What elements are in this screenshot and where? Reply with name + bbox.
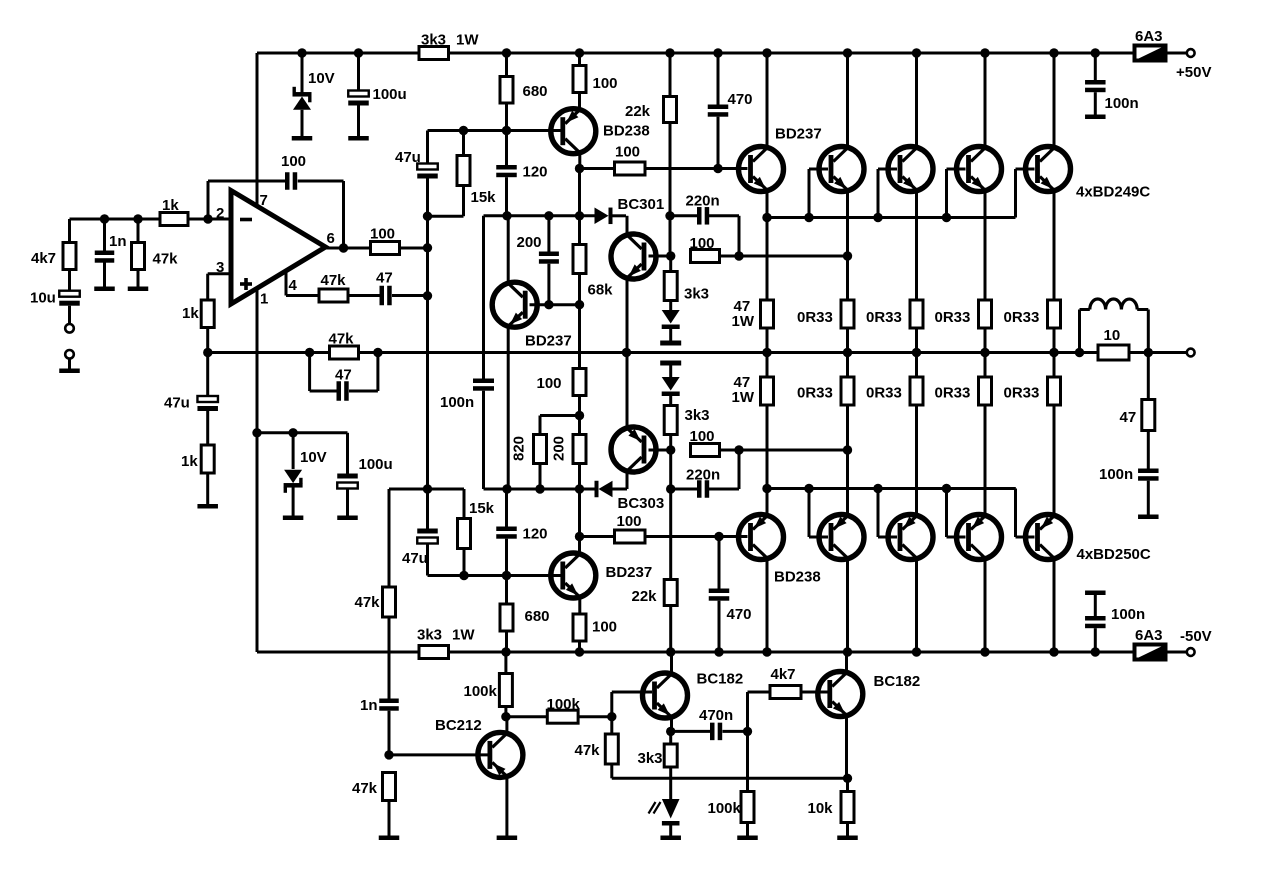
resistor 3k3 1W (bottom rail dropper) (419, 646, 449, 659)
capacitor bias coupling top lower plate (660, 361, 681, 366)
wire net-575 driver bias bottom (428, 574, 562, 577)
resistor 47k (feedback on output rail) (330, 346, 359, 359)
resistor 15k (top) (462, 131, 465, 156)
wire BC212 collector up (505, 717, 508, 733)
ground bottom 100u (337, 516, 358, 521)
ground 10k (837, 836, 858, 841)
wire base stub 5 (1014, 169, 1017, 218)
wire base stub 3 (877, 169, 880, 218)
wire emitter down 2 (846, 191, 849, 300)
svg-text:BD238: BD238 (603, 123, 650, 140)
wire 200' to net-537 (578, 489, 581, 537)
resistor 680 (top) (505, 53, 508, 77)
node bottom rail 470' (714, 647, 723, 656)
node top rail 100n (1091, 48, 1100, 57)
svg-text:3k3: 3k3 (417, 627, 442, 644)
wire collector to +rail 3 (915, 53, 918, 148)
capacitor 120 (top) (505, 131, 508, 166)
capacitor 47 (parallel feedback) (337, 381, 342, 401)
resistor 47 (Zobel) (1147, 353, 1150, 400)
svg-text:2: 2 (216, 205, 224, 222)
capacitor 1n (input filter) (103, 219, 106, 251)
transistor BD238 (bottom driver) (739, 515, 784, 560)
svg-text:47: 47 (376, 270, 393, 287)
ground BC212 emitter (497, 836, 518, 841)
node op-amp output junction (339, 243, 348, 252)
wire net-415 (540, 414, 580, 417)
wire input node (70, 218, 161, 221)
node VAS output net top (666, 251, 675, 260)
svg-text:47k: 47k (153, 251, 179, 268)
svg-text:120: 120 (523, 164, 548, 181)
wire 15k' top to 47u column (428, 488, 465, 491)
node BC301 emitter on rail (622, 348, 631, 357)
svg-text:1k: 1k (162, 197, 179, 214)
svg-text:0R33: 0R33 (935, 385, 971, 402)
resistor 4k7 (input) (63, 243, 76, 270)
node BC182-2 emitter 10k (843, 774, 852, 783)
transistor 4xBD249C output transistor 4 (top) (957, 147, 1002, 192)
svg-text:47u: 47u (164, 395, 190, 412)
wire op-amp pin 1 column (256, 288, 259, 652)
node top rail 100u (354, 48, 363, 57)
svg-text:1W: 1W (452, 627, 475, 644)
transistor BC301 (611, 234, 656, 279)
wire output resistor to 47u column (400, 247, 428, 250)
svg-text:0R33: 0R33 (866, 385, 902, 402)
wire 15k bottom to 47u column (428, 215, 464, 218)
capacitor 100n (top rail) (1094, 53, 1097, 80)
svg-text:BC301: BC301 (618, 196, 665, 213)
svg-text:47: 47 (1120, 409, 1137, 426)
node bottom rail collector 5 (1049, 647, 1058, 656)
wire collector to +rail 2 (846, 53, 849, 148)
capacitor 470 (bottom) (718, 537, 721, 589)
node base net bottom 3 (873, 484, 882, 493)
wire BD237-mid base (530, 303, 549, 306)
node 68k bottom (575, 300, 584, 309)
svg-text:BD238: BD238 (774, 569, 821, 586)
svg-text:22k: 22k (625, 103, 651, 120)
node base net 4 (942, 213, 951, 222)
resistor 10k (846, 778, 849, 791)
node driver emitter to base net (762, 213, 771, 222)
svg-text:0R33: 0R33 (797, 309, 833, 326)
node top rail zener (297, 48, 306, 57)
node BC182-1 base node (607, 712, 616, 721)
svg-text:47: 47 (335, 367, 352, 384)
node 220n to VAS net (734, 251, 743, 260)
node rail output column 3 (912, 348, 921, 357)
resistor 3k3 (top bias) (669, 256, 672, 272)
terminal input jack signal (65, 324, 74, 333)
resistor 4k7 (protection) (770, 686, 801, 699)
node input junction 47k (133, 214, 142, 223)
wire op-amp pin 3 input (208, 272, 231, 275)
zener diode 10V (top) (301, 53, 304, 94)
node 820 bottom (535, 484, 544, 493)
node net-450 to T2' emitter (843, 445, 852, 454)
wire collector to -rail 3 (915, 559, 918, 652)
ground 1n (94, 287, 115, 292)
node BC212 base (384, 750, 393, 759)
wire emitter up 5 (1053, 405, 1056, 515)
svg-text:470n: 470n (699, 707, 733, 724)
resistor 3k3 (protection) (669, 731, 672, 744)
svg-text:220n: 220n (686, 467, 720, 484)
capacitor 100n (Miller bridge) (473, 379, 494, 384)
node bottom rail collector 2 (843, 647, 852, 656)
transistor 4xBD250C output transistor 5 (bottom) (1026, 515, 1071, 560)
resistor 0R33 (top emitter 2) (841, 300, 854, 328)
wire BD237' emitter down (578, 598, 581, 615)
node bottom VAS net (666, 445, 675, 454)
wire 100n column top corner (482, 216, 485, 379)
node 68k top (575, 211, 584, 220)
svg-text:4xBD250C: 4xBD250C (1077, 546, 1151, 563)
resistor 100 (BD237' emitter) (573, 614, 586, 641)
node pin-2 junction (203, 214, 212, 223)
svg-text:4: 4 (289, 277, 298, 294)
wire 47u column bottom half (426, 353, 429, 529)
svg-text:BC212: BC212 (435, 717, 482, 734)
wire collector to +rail 4 (984, 53, 987, 148)
node top rail 22k (665, 48, 674, 57)
resistor 100k (BC212 to BC182 base) (506, 715, 547, 718)
wire net-130 driver bias top (428, 129, 562, 132)
svg-text:100: 100 (281, 153, 306, 170)
svg-text:47k: 47k (329, 331, 355, 348)
node pin-1 column to aux supply net (252, 428, 261, 437)
node 200 cap top (544, 211, 553, 220)
wire top +50V rail left section (op-amp supply) (257, 52, 419, 55)
wire BD238 collector down (578, 154, 581, 169)
node top rail collector 1 (762, 48, 771, 57)
ground protection diode (660, 836, 681, 841)
transistor BD237 (top driver) (739, 147, 784, 192)
svg-text:100: 100 (615, 144, 640, 161)
resistor 3k3 (bottom bias) (669, 396, 672, 406)
svg-text:68k: 68k (588, 282, 614, 299)
node BD238 collector net-169 (575, 164, 584, 173)
wire 1n column (388, 652, 391, 699)
wire top rail to fuse terminal (1166, 52, 1187, 55)
terminal output (1187, 349, 1195, 357)
node 47u column bottom diode-net (423, 484, 432, 493)
node top rail 100 (575, 48, 584, 57)
diode BC301 (bias diode) (595, 208, 609, 225)
svg-text:47k: 47k (575, 742, 601, 759)
svg-text:1k: 1k (182, 305, 199, 322)
node base net 3 (873, 213, 882, 222)
wire BC182-1 collector (670, 652, 673, 675)
node BC182-1 emitter node (666, 727, 675, 736)
svg-text:100: 100 (593, 75, 618, 92)
wire emitter down 3 (915, 191, 918, 300)
wire collector to -rail 5 (1053, 559, 1056, 652)
wire feedback capacitor branch (207, 181, 210, 219)
capacitor 100n (Zobel) (1147, 431, 1150, 469)
wire BD237-mid emitter crossing rail (507, 327, 510, 490)
node net-256 to T2 emitter (843, 251, 852, 260)
svg-text:47k: 47k (321, 272, 347, 289)
wire op-amp pin 7 supply (256, 53, 259, 207)
capacitor 470 (top) (717, 53, 720, 105)
svg-text:22k: 22k (632, 588, 658, 605)
wire BC303 emitter to rail (626, 353, 629, 428)
capacitor 200 (upper) (547, 216, 550, 252)
resistor 47k (BC212 base to ground) (383, 773, 396, 801)
svg-text:680: 680 (523, 83, 548, 100)
resistor 820 (539, 416, 542, 435)
capacitor 100 (op-amp feedback) (285, 172, 290, 190)
node top rail collector 5 (1049, 48, 1058, 57)
resistor 0R33 (top emitter 4) (979, 300, 992, 328)
ground bottom zener (283, 516, 304, 521)
svg-text:10k: 10k (808, 800, 834, 817)
wire BC182-2 emitter (845, 715, 848, 778)
svg-text:1k: 1k (181, 453, 198, 470)
node 200 cap bottom (544, 300, 553, 309)
wire T2 bottom emitter net (846, 450, 849, 515)
node bottom rail 100 (575, 647, 584, 656)
capacitor 47 (pin 4) (380, 286, 385, 306)
svg-text:220n: 220n (686, 193, 720, 210)
transistor 4xBD249C output transistor 3 (top) (888, 147, 933, 192)
resistor 1k (feedback to ground) (201, 445, 214, 473)
svg-text:47k: 47k (355, 594, 381, 611)
wire BD237-mid collector (507, 216, 510, 283)
resistor 100 (BD238 emitter) (578, 53, 581, 66)
svg-text:100k: 100k (464, 683, 498, 700)
svg-text:100n: 100n (440, 394, 474, 411)
resistor 0R33 (bottom emitter 4) (979, 377, 992, 405)
wire bottom -50V rail left section (257, 651, 419, 654)
svg-text:1n: 1n (109, 233, 127, 250)
node 220n' net left (666, 484, 675, 493)
node bottom driver emitter to base net (762, 484, 771, 493)
node rail output column 4 (980, 348, 989, 357)
node 15k top on net-130 (459, 126, 468, 135)
svg-text:100: 100 (690, 428, 715, 445)
svg-text:10V: 10V (308, 70, 335, 87)
node net-415 junction (575, 411, 584, 420)
svg-text:100u: 100u (359, 456, 393, 473)
op-amp U1 (231, 191, 326, 305)
resistor 200 (bottom) (578, 416, 581, 435)
wire emitter up 2 (846, 405, 849, 515)
resistor 10 (parallel with inductor) (1098, 345, 1129, 360)
wire diode net top (484, 214, 595, 217)
node 200' bottom (575, 484, 584, 493)
wire BC303 collector (626, 471, 629, 489)
transistor 4xBD249C output transistor 2 (top) (819, 147, 864, 192)
node rail 47-1W top (762, 348, 771, 357)
zener diode 10V (bottom) (292, 433, 295, 469)
svg-text:470: 470 (727, 606, 752, 623)
wire BC303 base (649, 449, 671, 452)
resistor 0R33 (bottom emitter 2) (841, 377, 854, 405)
resistor 680 (bottom) (505, 576, 508, 605)
node top rail collector 3 (912, 48, 921, 57)
wire collector to -rail 1 (766, 559, 769, 652)
wire collector to +rail 5 (1053, 53, 1056, 148)
svg-text:6: 6 (327, 230, 335, 247)
wire BC212 emitter to ground (505, 777, 508, 836)
ground feedback 1k (197, 504, 218, 509)
svg-text:6A3: 6A3 (1135, 627, 1163, 644)
resistor 68k (578, 216, 581, 245)
svg-text:1W: 1W (732, 389, 755, 406)
wire base stub bottom 2 (808, 489, 811, 538)
svg-text:3k3: 3k3 (421, 32, 446, 49)
svg-text:1W: 1W (456, 32, 479, 49)
transistor 4xBD250C output transistor 2 (bottom) (819, 515, 864, 560)
inductor 10uH output coil (1078, 310, 1081, 353)
svg-text:47u: 47u (402, 550, 428, 567)
svg-text:+50V: +50V (1176, 64, 1211, 81)
resistor 1k (pin 3 to feedback node) (201, 300, 214, 328)
svg-text:4k7: 4k7 (31, 250, 56, 267)
wire bottom rail to fuse terminal (1166, 651, 1187, 654)
wire emitter down 5 (1053, 191, 1056, 300)
node base net bottom 4 (942, 484, 951, 493)
svg-text:100k: 100k (708, 800, 742, 817)
resistor 100k (protection to ground) (741, 792, 754, 823)
wire net-489 left tail to 47k (389, 488, 428, 491)
wire 47u column mid (426, 216, 429, 352)
capacitor 47u (bottom) (417, 529, 438, 534)
capacitor 100n (bottom rail) (1085, 591, 1106, 596)
chassis bar 100n top (1085, 115, 1106, 120)
node 10V zener top (288, 428, 297, 437)
node net-537 junction (575, 532, 584, 541)
wire 22k' column (669, 450, 672, 489)
resistor 47k (input) (137, 219, 140, 243)
svg-text:680: 680 (525, 608, 550, 625)
wire emitter up 3 (915, 405, 918, 515)
wire driver base bottom (739, 535, 748, 538)
transistor BD237 (bottom pre-driver) (551, 553, 596, 598)
node 15k bottom on net-575 (459, 571, 468, 580)
svg-text:BC182: BC182 (697, 671, 744, 688)
terminal +50V (1187, 49, 1195, 57)
ground 100k protection (737, 836, 758, 841)
svg-text:7: 7 (260, 192, 268, 209)
svg-text:0R33: 0R33 (866, 309, 902, 326)
node feedback node on output rail (203, 348, 212, 357)
wire base stub bottom 4 (945, 489, 948, 538)
transistor BC182 (protection 1) (643, 673, 688, 718)
diode bias top (662, 310, 680, 324)
capacitor 10u (input electrolytic) (59, 291, 80, 297)
wire base stub bottom 5 (1014, 489, 1017, 538)
svg-text:BC182: BC182 (874, 673, 921, 690)
svg-text:47k: 47k (352, 780, 378, 797)
wire BD237' collector (578, 537, 581, 553)
wire emitter up 4 (984, 405, 987, 515)
svg-text:100: 100 (370, 226, 395, 243)
resistor 47k (BC182-1 base) (610, 717, 613, 734)
transistor BC303 (611, 427, 656, 472)
fuse 6A3 (-50V) (1135, 645, 1166, 660)
node top rail collector 4 (980, 48, 989, 57)
svg-text:200: 200 (551, 436, 568, 461)
svg-text:3k3: 3k3 (684, 286, 709, 303)
wire BC212 base (389, 753, 489, 756)
svg-text:470: 470 (728, 91, 753, 108)
svg-text:0R33: 0R33 (797, 385, 833, 402)
node input junction 1n (100, 214, 109, 223)
svg-text:15k: 15k (469, 500, 495, 517)
node bottom rail collector 1 (762, 647, 771, 656)
capacitor 120 (bottom) (505, 489, 508, 527)
resistor 15k (bottom) (463, 489, 466, 519)
svg-text:100n: 100n (1105, 95, 1139, 112)
wire mid output rail (208, 351, 1187, 354)
transistor BC212 (478, 732, 523, 777)
chassis bar Zobel (1138, 515, 1159, 520)
transistor 4xBD249C output transistor 5 (top) (1026, 147, 1071, 192)
node bottom rail 100n (1091, 647, 1100, 656)
transistor 4xBD250C output transistor 4 (bottom) (957, 515, 1002, 560)
svg-text:-50V: -50V (1180, 628, 1212, 645)
wire BC301 collector (626, 216, 629, 235)
node bottom rail collector 3 (912, 647, 921, 656)
node 120 bottom diode-net (502, 211, 511, 220)
svg-text:100n: 100n (1111, 606, 1145, 623)
wire base stub 4 (945, 169, 948, 218)
svg-text:1n: 1n (360, 697, 378, 714)
node inductor right on rail (1144, 348, 1153, 357)
diode bias bottom (669, 366, 672, 378)
transistor BD237 (mid upper) (492, 282, 537, 327)
node 47k feedback right (373, 348, 382, 357)
node bottom rail 22k (666, 647, 675, 656)
svg-text:BD237: BD237 (775, 126, 822, 143)
capacitor 220n (top) (670, 214, 697, 217)
svg-text:4xBD249C: 4xBD249C (1076, 184, 1150, 201)
capacitor 47u (top) (417, 164, 438, 170)
svg-text:1: 1 (260, 291, 268, 308)
resistor 3k3 1W (top rail dropper) (419, 47, 449, 60)
resistor 47 1W (top driver emitter) (766, 218, 769, 301)
wire base stub bottom 3 (877, 489, 880, 538)
capacitor bias coupling top (669, 329, 672, 341)
resistor 100 (mid lower, rail to net-415) (578, 305, 581, 369)
wire BC182-1 base stub (610, 692, 613, 717)
node BD237-mid emitter to bottom diode net (502, 484, 511, 493)
wire base net top output stage (767, 216, 1016, 219)
svg-text:100k: 100k (547, 696, 581, 713)
svg-text:3k3: 3k3 (685, 407, 710, 424)
svg-text:BD237: BD237 (606, 564, 653, 581)
svg-text:100: 100 (592, 619, 617, 636)
svg-text:6A3: 6A3 (1135, 28, 1163, 45)
resistor 100k (rail to BC212) (504, 652, 507, 674)
svg-text:10: 10 (1104, 327, 1121, 344)
svg-text:4k7: 4k7 (771, 666, 796, 683)
wire collector to -rail 4 (984, 559, 987, 652)
wire op-amp pin 4 branch (285, 272, 288, 296)
node 470' cap on net-537 (714, 532, 723, 541)
node inductor left (1075, 348, 1084, 357)
diode BC303 (bias diode) (595, 481, 599, 498)
node top rail 680 (502, 48, 511, 57)
svg-text:3k3: 3k3 (638, 750, 663, 767)
svg-text:120: 120 (523, 526, 548, 543)
wire base stub 2 (808, 169, 811, 218)
